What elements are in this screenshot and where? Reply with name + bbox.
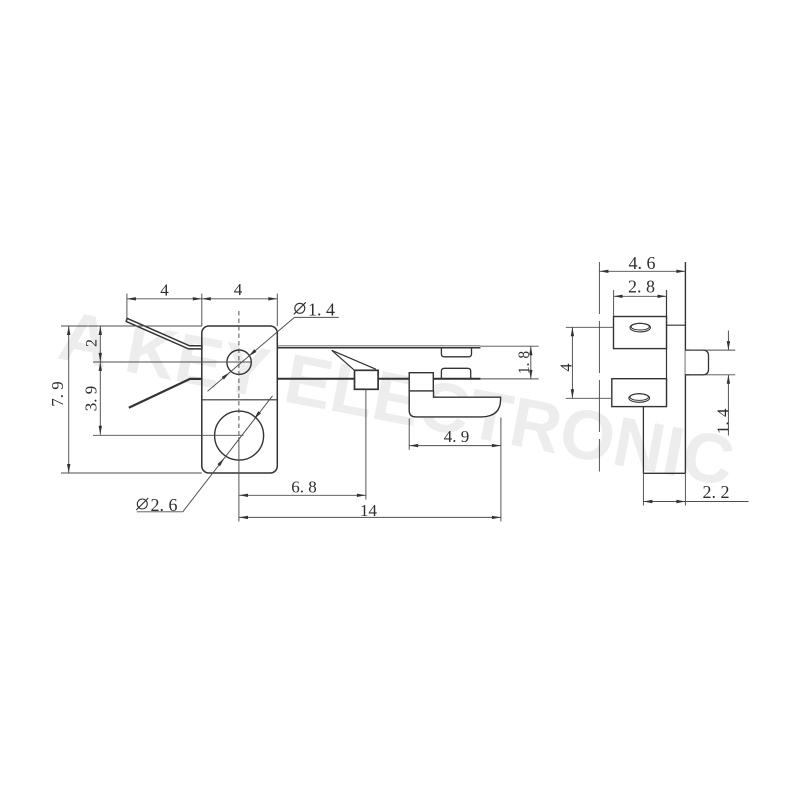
watermark A KEY ELECTRONIC	[53, 296, 740, 501]
dimension line 1.4 lower segment	[727, 375, 729, 436]
extension line upper lever right	[480, 345, 538, 347]
leader line d1.4	[208, 317, 295, 391]
svg-text:4: 4	[557, 363, 576, 371]
svg-text:3. 9: 3. 9	[82, 386, 101, 412]
dimension 4 (end view) top extension	[566, 326, 614, 328]
arrows dim 1.4	[727, 341, 730, 350]
label d2.6	[136, 498, 148, 510]
node: top terminal tab	[614, 317, 667, 349]
arrows dim 3.9	[99, 362, 102, 371]
leader line d2.6	[183, 396, 273, 512]
dimension 6.8 extension from slider block	[365, 389, 367, 499]
dimension line 14	[239, 516, 501, 518]
wire: dashed phantom line left of end view	[598, 262, 600, 472]
dimension 4.9 left extension	[408, 419, 410, 450]
node: side bump tab	[685, 350, 708, 375]
arrows dim 4.9	[409, 444, 418, 447]
dimension 1.4 top extension	[690, 349, 735, 351]
node: left actuator lever (outlined)	[126, 318, 202, 349]
wire: bottom-left spring lever	[129, 379, 202, 408]
svg-text:2. 8: 2. 8	[628, 276, 655, 296]
arrows dim 2.8	[614, 295, 623, 298]
dimension line 4+4 top	[127, 298, 277, 300]
arrows dim 4 end view	[571, 327, 574, 336]
dimension 4 (left) extension line at lever tip	[126, 294, 128, 319]
svg-text:1. 4: 1. 4	[714, 408, 733, 434]
wire: horizontal centerline through small hole	[93, 361, 252, 363]
arrows dim 6.8	[239, 494, 248, 497]
svg-text:2. 2: 2. 2	[703, 482, 730, 502]
wire: body divider line	[202, 399, 277, 401]
arrows dim 4 top pair	[127, 297, 136, 300]
svg-text:4. 6: 4. 6	[629, 253, 656, 273]
dimension 4 extension at body left edge	[201, 294, 203, 327]
wire: top lever right segment (lower edge)	[277, 347, 480, 349]
arrows dim 2.2	[643, 500, 652, 503]
leader underline d1.4	[294, 316, 338, 318]
node: oval slot top	[630, 323, 650, 332]
wire: end view plate left edge	[666, 290, 668, 407]
ARROWHEADS	[67, 270, 730, 519]
wire: bottom lever right segment	[277, 378, 480, 380]
wire: plate top edge	[667, 324, 686, 326]
node: oval slot bottom	[629, 394, 650, 403]
wire: horizontal centerline through large hole	[93, 434, 244, 436]
dimension line 2.8	[614, 295, 667, 297]
node: small hole d1.4	[227, 350, 251, 374]
svg-text:7. 9: 7. 9	[48, 381, 67, 407]
arrows leader d2.6	[217, 458, 224, 466]
node: hook upper rectangle	[409, 373, 433, 391]
extension below plate right	[684, 473, 686, 505]
dimension 2.8 left extension	[613, 290, 615, 317]
thin lines group	[61, 294, 539, 522]
arrows leader d1.4	[249, 349, 257, 356]
node: triangle link to slider block	[332, 350, 355, 370]
svg-text:2. 6: 2. 6	[151, 495, 178, 515]
dimension 4 extension at body right edge	[276, 294, 278, 327]
wire: centerline extension down to dims	[238, 437, 240, 522]
dimension line 4.9	[409, 445, 501, 447]
arrows dim 4.6	[599, 270, 608, 273]
dimension 1.4 bottom extension	[690, 374, 735, 376]
dimension line 3.9	[99, 362, 101, 435]
node: main body rounded block	[202, 326, 277, 473]
wire: leg bottom edge	[643, 472, 685, 474]
wire: leg left edge	[642, 407, 644, 474]
dimension line 1.4 upper segment	[727, 331, 729, 351]
node: bottom terminal tab	[612, 379, 667, 407]
node: contact tab hanging under top lever	[441, 348, 471, 357]
arrows dim 2	[99, 326, 102, 335]
node: hook terminal piece	[409, 391, 500, 417]
END VIEW	[612, 262, 709, 473]
arrows dim 1.8	[529, 346, 532, 355]
node: slider block on lower lever	[355, 370, 379, 389]
extension below leg left	[642, 473, 644, 505]
wire: top body extension line to left	[61, 325, 202, 327]
arrows dim 14	[239, 516, 248, 519]
wire: top lever right segment (upper edge)	[277, 345, 480, 347]
dimension line 4 (end view)	[571, 327, 573, 398]
svg-text:14: 14	[360, 501, 378, 520]
arrows dim 7.9	[67, 326, 70, 335]
svg-text:4: 4	[160, 281, 169, 300]
wire: vertical dashed centerline of body	[238, 311, 240, 437]
dimension 4 (end view) bottom extension	[566, 397, 612, 399]
leader underline d2.6	[137, 511, 183, 513]
wire: end view plate right edge	[684, 262, 686, 473]
svg-text:6. 8: 6. 8	[291, 478, 317, 497]
dimension line 1.8	[530, 346, 532, 379]
node: large hole d2.6	[215, 411, 264, 460]
svg-text:4: 4	[234, 280, 243, 299]
dimension line 2.2 with tail	[643, 501, 748, 503]
node: contact tab above bottom lever	[441, 368, 470, 378]
dimension line 4.6	[599, 270, 685, 272]
svg-text:2: 2	[84, 339, 101, 347]
wire: bottom body extension line to left	[61, 472, 202, 474]
right extension line for 4.9 and 14	[500, 418, 502, 522]
label d1.4	[294, 302, 306, 314]
svg-text:1. 4: 1. 4	[308, 300, 335, 320]
dimension line 2	[99, 326, 101, 362]
dimension line 7.9	[68, 326, 70, 473]
svg-text:4. 9: 4. 9	[444, 427, 470, 446]
dimension line 6.8	[239, 494, 366, 496]
svg-text:1. 8: 1. 8	[516, 351, 533, 375]
extension line lower lever right	[480, 378, 538, 380]
dimension 2.8 right extension	[666, 290, 668, 296]
